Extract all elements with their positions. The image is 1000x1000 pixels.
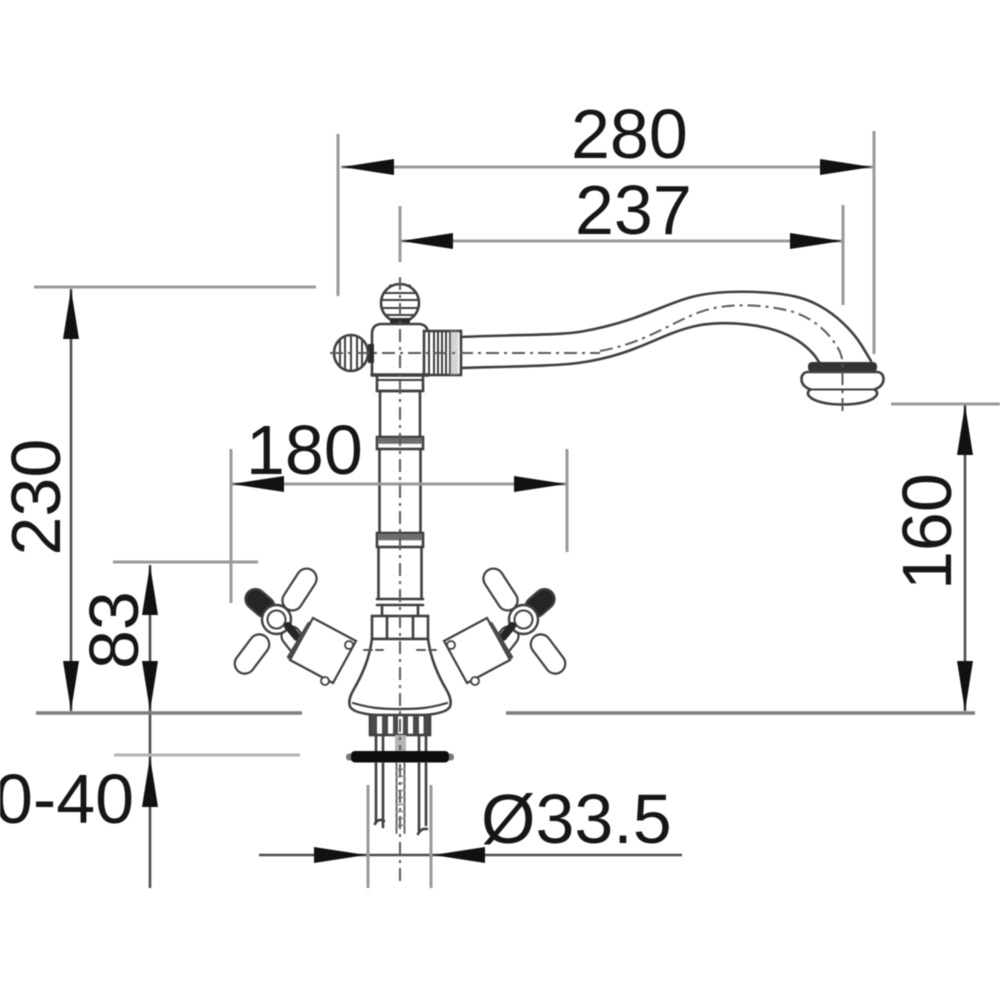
svg-text:180: 180 bbox=[246, 411, 363, 489]
svg-text:0-40: 0-40 bbox=[0, 760, 134, 838]
svg-text:83: 83 bbox=[75, 591, 153, 669]
svg-text:280: 280 bbox=[571, 95, 688, 173]
svg-text:Ø33.5: Ø33.5 bbox=[481, 780, 672, 858]
svg-text:160: 160 bbox=[888, 473, 966, 590]
svg-text:237: 237 bbox=[575, 171, 692, 249]
svg-text:230: 230 bbox=[0, 439, 75, 556]
